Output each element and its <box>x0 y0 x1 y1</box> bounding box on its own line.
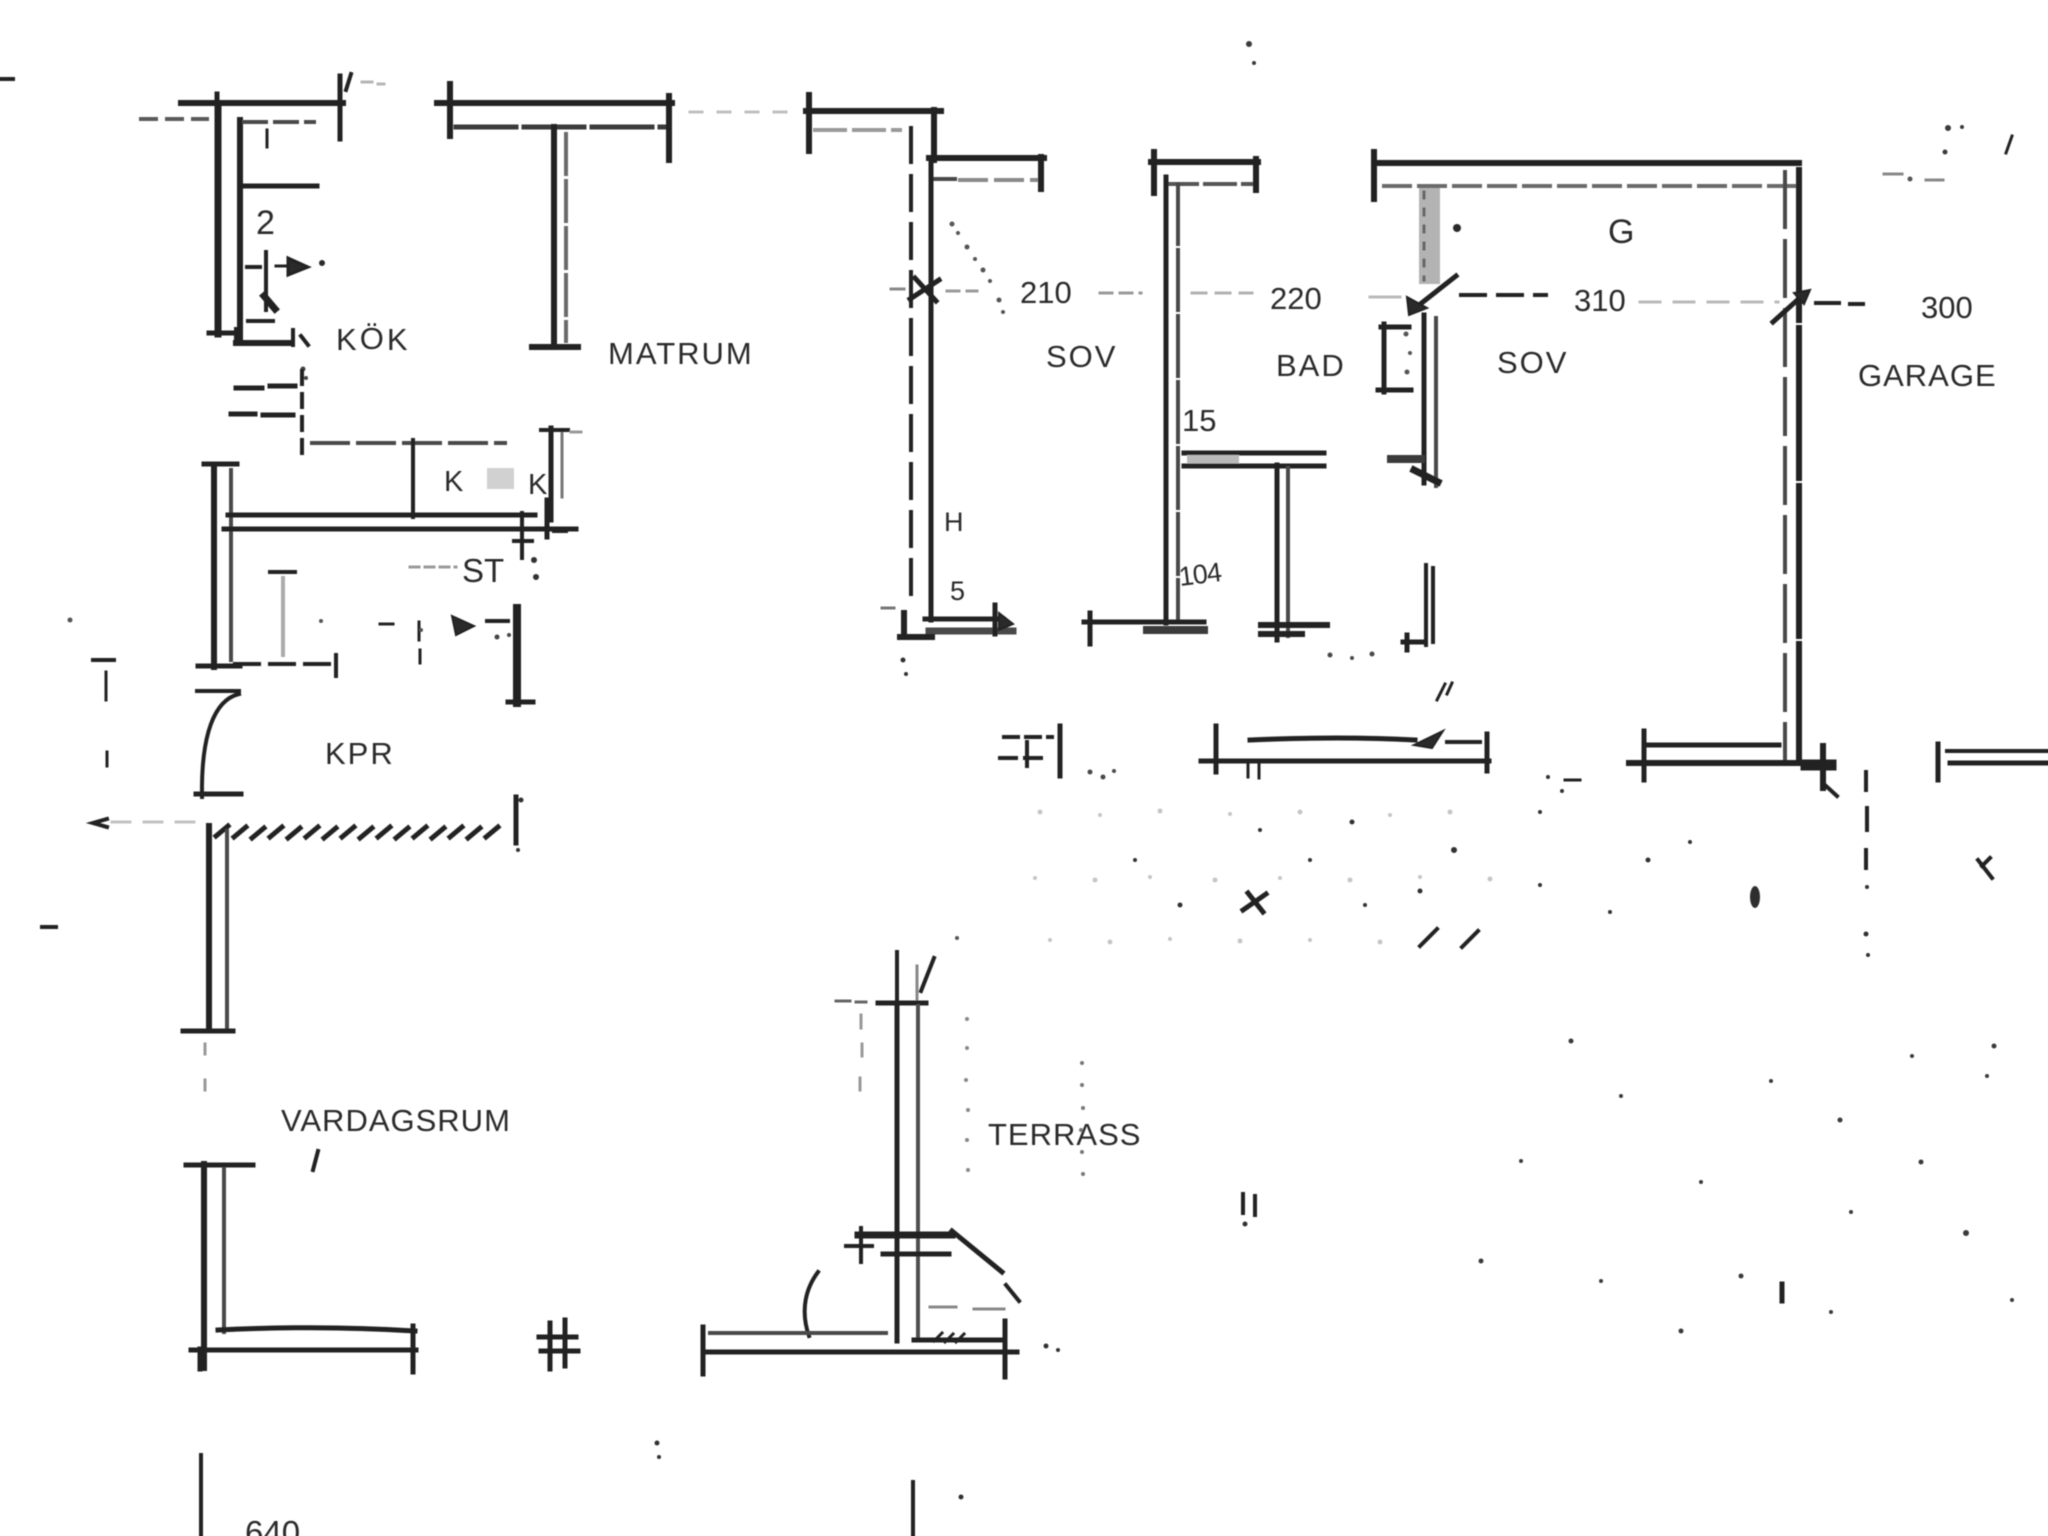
lower south wall left tick <box>198 1349 203 1369</box>
faint window dashes in wall gap <box>690 111 800 114</box>
closet east wall below bad <box>1286 468 1290 636</box>
kitchen west wall outer <box>215 106 222 334</box>
terrass south wall right tick <box>1003 1321 1008 1377</box>
door arc top chord <box>197 689 239 693</box>
kitchen bottom outer tick <box>209 331 232 336</box>
terrass south wall upper right part <box>914 1338 1002 1343</box>
short vertical dark dash right <box>1780 1284 1785 1301</box>
ii marks <box>1243 1194 1255 1215</box>
hall dim dash row upper <box>1004 735 1052 739</box>
svg-text:2: 2 <box>256 204 275 242</box>
sov1 west wall solid line <box>929 161 934 620</box>
small mark 1 <box>313 1151 318 1170</box>
bad door leaf <box>1414 276 1456 309</box>
kitchen shelf line <box>245 184 317 189</box>
bad door jamb speckle <box>1423 192 1426 280</box>
gray dash row below diagonal <box>930 1307 1004 1309</box>
zigzag end dots <box>516 798 524 853</box>
svg-text:210: 210 <box>1020 275 1072 310</box>
vertical dashed line under kitchen <box>300 371 304 455</box>
matrum north wall tick right <box>666 96 672 160</box>
faint dim dashes left of 220 <box>1192 292 1252 295</box>
bad west wall outer <box>1164 177 1169 623</box>
svg-text:104: 104 <box>1177 557 1223 592</box>
terrass cross left tick <box>846 1228 872 1262</box>
wall end blob <box>1806 760 1831 771</box>
sov2 west wall outer <box>1422 315 1427 483</box>
colon dots after ST <box>531 557 539 580</box>
small tick below shelf <box>266 130 269 147</box>
svg-text:GARAGE: GARAGE <box>1858 358 1997 393</box>
garage north wall upper <box>1376 160 1799 166</box>
terrass corner diagonal <box>952 1231 1002 1272</box>
right dim wall lower <box>1950 761 2048 766</box>
angle marks right margin <box>1978 858 1992 878</box>
kitchen bottom inner wall <box>236 330 288 343</box>
hall south wall upper <box>228 513 535 518</box>
mid south wall right tick <box>1485 734 1490 771</box>
vardagsrum west wall inner <box>225 831 229 1028</box>
terrass south wall left tick <box>701 1327 706 1374</box>
vardagsrum west wall bottom tick <box>183 1029 233 1034</box>
mid south wall arrow <box>1414 731 1443 748</box>
terrass cross bar upper <box>858 1232 952 1239</box>
cross mark below <box>1243 893 1266 912</box>
svg-text:BAD: BAD <box>1276 348 1346 383</box>
bad door jamb gray <box>1419 188 1440 284</box>
small marks left of 300 <box>1884 174 1943 180</box>
sov1 west wall dashed line <box>909 128 913 600</box>
apostrophe right margin <box>2006 136 2012 153</box>
svg-text:15: 15 <box>1182 403 1216 438</box>
svg-text:300: 300 <box>1921 290 1973 325</box>
zigzag hatched opening line <box>216 826 498 838</box>
faint dots left of vardagsrum <box>68 618 424 633</box>
corner horn <box>554 529 566 533</box>
bad north wall lower <box>1167 182 1256 186</box>
sov1 east-going wall upper <box>929 155 1044 161</box>
vardagsrum west wall outer <box>206 826 212 1030</box>
svg-text:310: 310 <box>1574 283 1626 318</box>
bottom mid vertical line <box>911 1482 915 1536</box>
sov1 south wall <box>925 617 1003 622</box>
counter divider <box>411 440 415 517</box>
garage north wall lower speckled <box>1384 184 1795 188</box>
dimension cross at west wall <box>910 278 939 301</box>
svg-text:SOV: SOV <box>1497 345 1568 380</box>
lower south wall inner wavy <box>218 1328 415 1331</box>
sov1 south wall right tick <box>993 605 998 634</box>
garage north wall tick <box>1371 152 1377 199</box>
diagonal nick below cross <box>1826 786 1837 796</box>
dash tail right of arrow <box>1447 740 1480 744</box>
matrum north wall tick left <box>447 84 453 136</box>
matrum west wall outer <box>551 127 557 346</box>
svg-text:H: H <box>944 507 964 537</box>
colon dots bottom center <box>655 1441 662 1460</box>
gray streak below t-mark <box>281 578 285 655</box>
bad north wall upper <box>1151 159 1258 165</box>
door bottom tick <box>196 792 241 797</box>
right dim tick <box>1936 744 1941 780</box>
dot mark <box>1908 177 1913 182</box>
faint dots right of apostrophe <box>362 82 384 84</box>
svg-text:640: 640 <box>245 1514 300 1536</box>
sov1 south wall shoe <box>929 628 1013 635</box>
bad west wall tick <box>1151 152 1157 193</box>
svg-text:220: 220 <box>1270 281 1322 316</box>
dots below kitchen <box>301 367 306 372</box>
mid south wall left tick <box>1214 726 1219 772</box>
arrow dots <box>495 633 512 640</box>
lower south wall right tick <box>411 1326 416 1372</box>
hall dim tick <box>1058 726 1063 776</box>
kitchen counter dashed line <box>312 441 505 445</box>
dots right of south wall <box>1044 1344 1061 1353</box>
diagonal dashes lower right <box>1420 929 1478 947</box>
sov1-bad south wall <box>1084 620 1204 625</box>
hall west wall top tick <box>204 462 237 467</box>
apostrophe mark above wall <box>346 74 351 90</box>
dots above garage right <box>1943 125 1965 155</box>
counter east wall top tick <box>541 428 568 432</box>
dashed vertical below right dim <box>1866 772 1867 868</box>
zigzag left arrow <box>93 819 107 827</box>
small dashes left of dashed vertical <box>1565 779 1580 782</box>
terrass wall top stub <box>895 952 899 1003</box>
faint dash left of door <box>1370 296 1400 299</box>
matrum west wall inner <box>564 134 568 341</box>
faint dashes below wall <box>204 1044 207 1114</box>
wall tick <box>215 94 220 121</box>
dark speckles scattered <box>1133 775 1692 914</box>
svg-text:KÖK: KÖK <box>336 321 411 357</box>
gray smudge between K K <box>487 468 514 489</box>
dotted column left of wall <box>860 1015 862 1090</box>
bad door arrow blob <box>1407 297 1427 315</box>
terrass top diagonal mark <box>921 958 934 991</box>
lower west corner top tick <box>186 1163 253 1168</box>
kitchen inner top dashed shelf <box>244 120 314 124</box>
garage south wall inner <box>1646 743 1779 748</box>
datum tick far left <box>93 658 114 662</box>
dim dashes right of arrow <box>1816 303 1863 304</box>
counter east wall inner <box>561 431 564 497</box>
gray dash under ST <box>410 566 456 569</box>
terrass west wall outer <box>895 1003 900 1341</box>
hall dim dash row lower <box>1000 756 1050 760</box>
matrum north wall upper <box>437 100 672 106</box>
sov1 north wall <box>806 108 941 114</box>
dash left of sov1 corner <box>882 607 894 610</box>
door bracket in bad east wall <box>1378 324 1411 392</box>
svg-text:SOV: SOV <box>1046 339 1117 374</box>
bottom end marks <box>293 330 308 345</box>
bad lower-left wall upper line <box>1184 451 1324 456</box>
sov2 west wall shoe tick <box>1391 455 1421 463</box>
sov1 east-going wall lower dashed <box>933 177 955 181</box>
blob right of sov1 <box>1453 224 1461 232</box>
hall west wall inner <box>229 470 233 660</box>
door swing dotted diagonal <box>950 222 1006 315</box>
bad west wall inner <box>1176 184 1180 620</box>
hall west wall outer <box>211 466 217 667</box>
bad lower-left wall gray fill <box>1187 455 1239 467</box>
dots below dashed vertical <box>1864 885 1871 957</box>
svg-text:K: K <box>444 466 464 498</box>
small blob on cross <box>264 296 275 309</box>
curve mark f <box>805 1272 818 1336</box>
dot right of arrow <box>319 260 325 266</box>
dashed passage line <box>235 662 330 666</box>
dash left of cross <box>891 288 904 291</box>
lower west wall outer <box>201 1164 207 1368</box>
small dash right <box>380 623 393 626</box>
zigzag faint lead dash <box>112 821 200 824</box>
terrass top tick <box>878 1001 926 1006</box>
right dim wall upper <box>1947 749 2048 753</box>
dotted vertical in terrass <box>1079 1061 1085 1176</box>
zigzag end post <box>514 797 519 843</box>
dash on far left <box>42 925 56 929</box>
bad north wall tick right <box>1253 159 1259 190</box>
sov2 door bracket vertical <box>1426 565 1433 645</box>
sov2 west wall inner <box>1434 318 1438 486</box>
arrow psi left blob <box>452 616 474 635</box>
sov2 west wall bottom blob <box>1414 470 1438 482</box>
scattered dots bottom right quadrant <box>1479 1039 2015 1334</box>
sov1 corner vertical <box>931 110 937 160</box>
dashed row 1 below kitchen <box>236 386 295 388</box>
sov1 south wall left L <box>900 613 932 637</box>
matrum north wall lower <box>456 125 665 130</box>
extra diagonal dash <box>1006 1285 1019 1301</box>
dots below sov1 corner <box>901 658 906 663</box>
sov1 north wall lower gray dashes <box>815 128 900 132</box>
datum vertical dashes <box>106 672 107 766</box>
south wall left tick <box>1088 613 1093 644</box>
bad west wall bottom shoe <box>1147 626 1204 634</box>
stair post thick vertical <box>513 608 521 703</box>
svg-text:5: 5 <box>950 576 965 606</box>
kitchen west wall inner <box>237 120 243 341</box>
dash-dot fragments right of bracket <box>1437 683 1452 700</box>
svg-text:MATRUM: MATRUM <box>608 336 754 371</box>
faint dash right of tick <box>571 431 581 434</box>
door swing arc <box>202 694 239 797</box>
arrow head pointing right <box>276 258 308 275</box>
hash mark <box>539 1320 578 1369</box>
mid south wall lower <box>1201 759 1489 764</box>
terrass west wall inner <box>916 1006 920 1338</box>
dot above terrass stub <box>955 936 959 940</box>
bottom-left vertical line <box>199 1455 203 1536</box>
dash-dot line right of door <box>1461 293 1546 297</box>
wall tick tall <box>338 76 343 139</box>
corner piece below wall <box>514 513 532 558</box>
arrow chevron at garage wall <box>1773 295 1803 322</box>
closet wall bottom shoe <box>1261 625 1327 634</box>
sov2 door bracket foot <box>1403 635 1425 650</box>
mid south wall upper wavy <box>1250 738 1415 740</box>
svg-text:G: G <box>1608 213 1634 251</box>
dotted column x967 <box>964 1017 970 1172</box>
top center dots <box>1246 41 1256 65</box>
dark blob right-mid <box>1750 886 1760 908</box>
svg-text:K: K <box>528 469 548 501</box>
hall west wall bottom tick <box>198 664 240 669</box>
squiggles on south wall <box>934 1333 964 1342</box>
lower south wall outer <box>191 1348 416 1353</box>
kitchen cross with arrow <box>247 252 266 310</box>
sov1 north wall tick left <box>806 95 812 151</box>
closet west wall below bad <box>1275 465 1280 640</box>
edge dash at left margin <box>0 77 13 81</box>
dashed row 2 below kitchen <box>231 414 293 415</box>
garage south wall right cross tick <box>1820 746 1826 788</box>
garage west wall inner <box>1796 170 1802 763</box>
terrass south wall upper left part <box>710 1331 886 1335</box>
matrum wall bottom tick <box>532 344 578 350</box>
bad lower-left wall lower line <box>1184 464 1324 469</box>
dots near sov2 bracket <box>1328 652 1375 661</box>
gray speckle band rows <box>1033 809 1493 945</box>
lower west wall inner <box>222 1169 226 1332</box>
terrass top tick dashes left <box>836 1001 866 1002</box>
dash-dot datum line west of kitchen <box>141 117 207 121</box>
tt marks below wall <box>1248 763 1259 778</box>
dash under cross <box>248 319 273 323</box>
svg-text:VARDAGSRUM: VARDAGSRUM <box>281 1103 511 1138</box>
hall south wall lower <box>224 527 576 532</box>
dimension line dashes <box>947 291 1141 293</box>
svg-text:ST: ST <box>462 552 504 589</box>
garage west wall outer dashed <box>1783 172 1787 763</box>
corner tick <box>545 500 550 537</box>
sov1 south wall arrow blob <box>999 613 1013 630</box>
garage south wall left tick <box>1642 731 1647 780</box>
svg-text:TERRASS: TERRASS <box>988 1117 1141 1152</box>
dots inside bracket <box>1404 332 1413 375</box>
dot below ii <box>1243 1222 1248 1227</box>
hall dim dots <box>1088 769 1117 780</box>
small vertical dashes <box>419 622 420 663</box>
t-mark near ST <box>270 570 295 574</box>
dot right of line <box>959 1495 964 1500</box>
kitchen north wall <box>181 100 343 106</box>
hall dim short tick <box>1025 742 1029 766</box>
gray dim dashes toward garage <box>1640 301 1778 304</box>
svg-text:KPR: KPR <box>325 736 395 771</box>
wall end bracket <box>1038 157 1044 189</box>
arrow dash <box>487 619 508 623</box>
stair post bottom tick <box>508 700 533 705</box>
terrass cross bar lower <box>883 1252 949 1257</box>
terrass stub inner <box>916 966 919 1003</box>
terrass south wall lower <box>703 1350 1017 1355</box>
counter east wall <box>549 428 554 520</box>
garage south wall outer <box>1629 760 1829 766</box>
passage end tick <box>334 655 338 676</box>
